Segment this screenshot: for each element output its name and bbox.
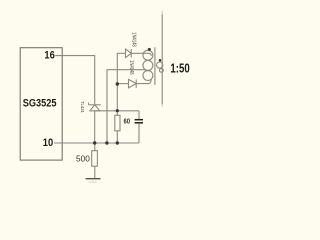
svg-text:10: 10 <box>43 137 53 149</box>
svg-text:500: 500 <box>76 154 90 163</box>
svg-text:16: 16 <box>44 49 54 61</box>
svg-text:SG3525: SG3525 <box>23 97 57 109</box>
svg-text:60: 60 <box>124 118 131 125</box>
svg-text:1N4148: 1N4148 <box>128 60 134 74</box>
svg-text:1N4148: 1N4148 <box>131 32 137 46</box>
svg-text:TL431: TL431 <box>79 101 85 113</box>
svg-text:1:50: 1:50 <box>170 62 189 76</box>
